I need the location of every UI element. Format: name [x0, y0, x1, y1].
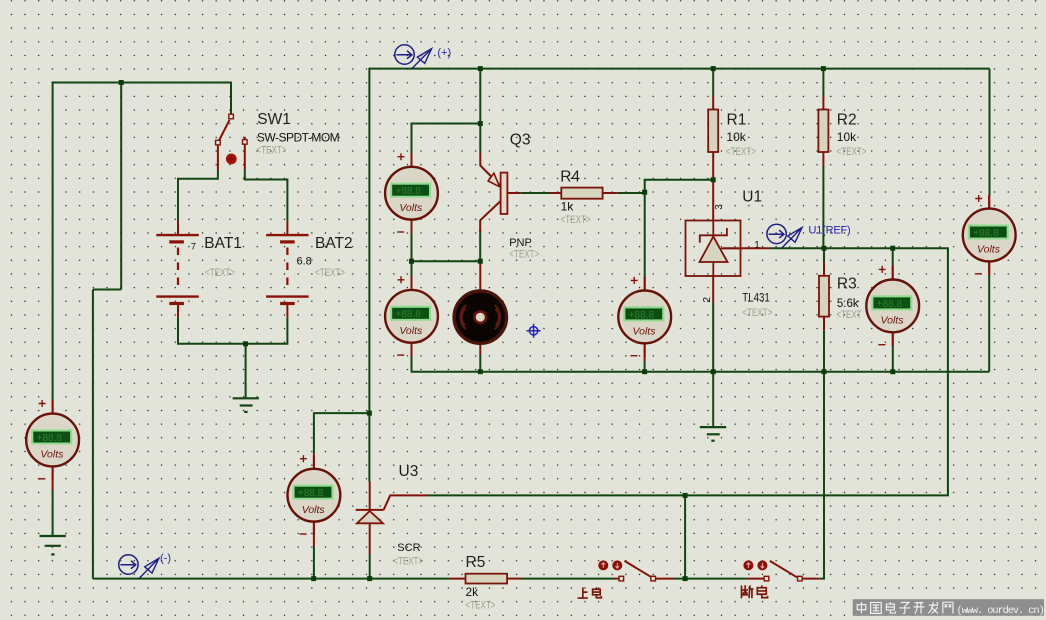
lead meter7 minus — [988, 261, 990, 275]
watermark bar — [853, 599, 1044, 616]
svg-text:BAT1: BAT1 — [204, 235, 242, 252]
watermark url text — [957, 605, 1044, 617]
lead meter4 plus — [313, 454, 315, 469]
wire top-left horizontal — [53, 82, 231, 84]
svg-text:PNP: PNP — [509, 237, 532, 249]
svg-text:(+): (+) — [437, 47, 451, 59]
placeholder R3 TEXT — [837, 309, 862, 321]
wire meter7 top — [989, 69, 991, 196]
lead meter2 plus — [411, 278, 413, 291]
junction meter4 branch — [367, 411, 372, 416]
resistor R5 — [466, 574, 508, 584]
watermark chinese text — [857, 602, 953, 614]
wire bottom rail R5 to SW-up — [522, 578, 615, 580]
svg-text:R1: R1 — [727, 111, 747, 128]
placeholder Q3 TEXT — [509, 248, 539, 260]
label K1 power-on chinese — [578, 587, 602, 598]
svg-text:1: 1 — [754, 240, 760, 251]
lead R3 bottom — [823, 317, 825, 331]
lead R1 top — [712, 96, 714, 110]
svg-text:<TEXT>: <TEXT> — [393, 556, 423, 568]
lead BAT2 bottom — [286, 304, 288, 318]
lead meter4 minus — [313, 522, 315, 547]
probe (+) — [395, 45, 432, 69]
label R2 — [837, 111, 857, 128]
lead meter3 plus — [52, 402, 54, 414]
value PNP — [509, 237, 532, 249]
junction bottom rail meter4 — [311, 576, 316, 581]
transistor U3 (SCR) — [356, 510, 384, 523]
lead meter2 minus — [411, 343, 413, 357]
svg-text:R4: R4 — [560, 169, 580, 186]
lead R5 left — [449, 578, 465, 580]
lead Q3 collector — [480, 201, 500, 232]
wire R1 top stub — [712, 68, 714, 96]
svg-text:SW1: SW1 — [257, 111, 291, 128]
junction rail-R3 — [822, 369, 827, 374]
voltmeter M7 — [963, 195, 1016, 275]
junction top rail at R1 — [711, 66, 716, 71]
wire meter6 top stub — [892, 248, 894, 265]
label U3 — [399, 463, 419, 480]
placeholder U3 TEXT — [393, 556, 423, 568]
resistor R4 — [561, 188, 602, 199]
lead U3 anode — [369, 482, 371, 510]
wire mid ground stem — [712, 372, 714, 426]
junction feedback drop — [683, 493, 688, 498]
wire middle rail y372 — [411, 371, 989, 373]
wire meter4 bottom to rail — [313, 547, 315, 579]
value TL431 — [742, 290, 770, 304]
wire main vertical x369 — [368, 68, 370, 482]
wire meter6 bottom stub — [892, 346, 894, 372]
junction meter1 bottom node — [409, 259, 414, 264]
placeholder R4 TEXT — [561, 214, 591, 226]
junction bottom rail SCR — [367, 576, 372, 581]
wire collector to junction — [479, 230, 481, 261]
svg-text:<TEXT>: <TEXT> — [257, 145, 287, 157]
wire meter2 plus stub — [411, 261, 413, 277]
junction rail-U1gnd — [711, 369, 716, 374]
battery BAT2 — [266, 235, 309, 303]
label R5 — [466, 554, 486, 571]
label R1 — [727, 111, 747, 128]
svg-text:U3: U3 — [399, 463, 419, 480]
pin number 2 — [702, 297, 713, 303]
pin number 1 — [754, 240, 760, 251]
resistor R3 — [819, 276, 829, 317]
battery BAT1 — [156, 235, 199, 303]
wire left vertical to voltmeter — [52, 82, 54, 403]
lead speaker bottom — [479, 344, 481, 355]
lead R2 bottom — [822, 152, 824, 166]
lead R5 right — [507, 578, 521, 580]
lead BAT2 top — [286, 221, 288, 235]
lead switch-up right — [655, 578, 674, 580]
junction REF at R2-R3 — [822, 246, 827, 251]
origin marker — [527, 324, 541, 338]
voltmeter M2 — [385, 276, 438, 356]
junction rail-meter6 — [890, 369, 895, 374]
switch SW1 — [216, 114, 248, 170]
svg-text:<TEXT>: <TEXT> — [315, 267, 345, 279]
svg-text:(-): (-) — [160, 553, 171, 565]
placeholder U1 TEXT — [742, 307, 772, 319]
wire SW1 throw1 down — [178, 170, 218, 221]
junction rail-meter5 — [642, 369, 647, 374]
lead R1 bottom to U1 pin3 — [712, 152, 714, 221]
lead speaker top — [479, 261, 481, 291]
svg-text:Q3: Q3 — [510, 132, 531, 149]
lead R4 right — [603, 192, 617, 194]
wire REF horizontal — [770, 248, 948, 495]
lead Q3 emitter — [480, 153, 500, 186]
svg-text:<TEXT: <TEXT — [837, 309, 862, 321]
wire meter2 bottom stub — [411, 357, 413, 372]
lead meter6 minus — [892, 332, 894, 346]
wire gate feedback horizontal — [428, 494, 949, 496]
placeholder R5 TEXT — [466, 600, 496, 612]
label K2 power-off chinese — [741, 585, 767, 598]
resistor R1 — [708, 110, 718, 153]
value R3 5.6k — [837, 298, 859, 310]
svg-text:SW-SPDT-MOM: SW-SPDT-MOM — [257, 131, 340, 145]
lead meter5 plus — [644, 278, 646, 292]
wire battery ground stem — [245, 344, 247, 398]
svg-text:U1: U1 — [742, 188, 762, 205]
wire bottom rail right corner up — [820, 331, 824, 579]
wire meter7 bottom — [988, 275, 990, 372]
wire far-left vertical x93 — [92, 290, 94, 579]
label R3 — [837, 275, 857, 292]
svg-text:<TEXT>: <TEXT> — [466, 600, 496, 612]
value BAT2 6.8 — [297, 256, 312, 268]
lead meter5 minus — [644, 343, 646, 361]
svg-text:2: 2 — [702, 297, 713, 303]
svg-text:TL431: TL431 — [742, 290, 770, 304]
svg-text:<TEXT>: <TEXT> — [726, 146, 756, 158]
junction top-left — [119, 80, 124, 85]
wire SW1 pole drop — [230, 82, 232, 115]
placeholder SW1 TEXT — [257, 145, 287, 157]
voltmeter M6 — [866, 266, 919, 346]
placeholder R2 TEXT — [837, 146, 867, 158]
wire meter4 branch — [314, 413, 370, 454]
svg-text:(www. ourdev. cn): (www. ourdev. cn) — [957, 605, 1044, 617]
wire R3 top stub — [823, 248, 825, 262]
svg-text:<TEXT>: <TEXT> — [742, 307, 772, 319]
svg-text:6.8: 6.8 — [297, 256, 312, 268]
value R5 2k — [466, 585, 480, 599]
junction collector-speaker — [478, 259, 483, 264]
wire meter5 bottom stub — [644, 361, 646, 372]
label Q3 — [510, 132, 531, 149]
probe label U1 REF — [809, 225, 851, 237]
label BAT2 — [315, 235, 353, 252]
lead BAT1 top — [177, 221, 179, 235]
lead meter1 plus — [411, 153, 413, 167]
probe U1(REF) — [767, 224, 802, 248]
wire U1 pin2 to rail — [712, 303, 714, 372]
value SW-SPDT-MOM — [257, 131, 340, 145]
svg-text:7: 7 — [191, 241, 196, 252]
wire junction up-over to R1 net — [645, 180, 714, 193]
lead switch-up left — [615, 578, 620, 580]
wire meter1 bottom to junction — [412, 234, 481, 261]
svg-text:R3: R3 — [837, 275, 857, 292]
wire meter1 top branch — [412, 124, 481, 154]
svg-text:U1(REF): U1(REF) — [809, 225, 851, 237]
ground left meter — [40, 536, 66, 554]
wire base to R4 — [520, 192, 549, 194]
lead Q3 base — [507, 192, 520, 194]
label U1 — [742, 188, 762, 205]
junction bottom rail feedback — [683, 576, 688, 581]
wire R2 bottom to REF — [822, 166, 824, 248]
placeholder BAT1 TEXT — [205, 267, 235, 279]
svg-text:<TEXT>: <TEXT> — [509, 248, 539, 260]
placeholder BAT2 TEXT — [315, 267, 345, 279]
junction top rail at R2 — [821, 66, 826, 71]
lead meter7 plus — [988, 196, 990, 209]
junction battery ground — [243, 341, 248, 346]
svg-text:R2: R2 — [837, 111, 857, 128]
value BAT1 7 — [191, 241, 196, 252]
value SCR — [397, 542, 420, 554]
label BAT1 — [204, 235, 242, 252]
lead BAT1 bottom — [177, 304, 179, 318]
junction REF at meter6 — [890, 246, 895, 251]
junction meter1 top — [478, 121, 483, 126]
lead meter3 minus — [52, 467, 54, 491]
wire bottom rail SW-up to SW-down — [674, 578, 747, 580]
voltmeter M1 — [385, 153, 438, 233]
resistor R2 — [818, 110, 828, 153]
junction top rail at emitter — [478, 66, 483, 71]
wire meter3 to ground — [52, 490, 54, 535]
lead R2 top — [822, 96, 824, 110]
svg-text:2k: 2k — [466, 585, 480, 599]
lead meter1 minus — [411, 220, 413, 235]
voltmeter M4 — [288, 455, 341, 535]
lead R3 top — [823, 262, 825, 276]
svg-text:1k: 1k — [561, 200, 575, 214]
wire R4 to junction — [617, 192, 645, 194]
lead R4 left — [549, 192, 561, 194]
wire junction down to meter5 — [644, 192, 646, 278]
wire R2 top stub — [822, 68, 824, 96]
lead U3 gate — [384, 495, 428, 510]
svg-text:<TEXT>: <TEXT> — [205, 267, 235, 279]
pin number 3 — [714, 204, 725, 210]
value R4 1k — [561, 200, 575, 214]
svg-text:R5: R5 — [466, 554, 486, 571]
lead U1 pin1 REF — [723, 247, 770, 249]
label R4 — [560, 169, 580, 186]
value R1 10k — [726, 130, 746, 144]
lead U1 pin2 — [712, 276, 714, 303]
wire SW1 throw2 down — [245, 169, 288, 220]
wire BAT1 bottom — [178, 318, 287, 344]
probe label minus — [160, 553, 171, 565]
wire jog vertical x121 — [120, 83, 122, 290]
svg-text:<TEXT>: <TEXT> — [561, 214, 591, 226]
placeholder R1 TEXT — [726, 146, 756, 158]
wire feedback drop to bottom rail — [684, 495, 686, 578]
wire SCR cathode to rail — [369, 554, 371, 579]
svg-text:BAT2: BAT2 — [315, 235, 353, 252]
switch K1 power-on — [598, 560, 655, 580]
value R2 10k — [837, 130, 857, 144]
voltmeter M5 — [618, 277, 671, 357]
junction rail-speaker — [478, 369, 483, 374]
lead SW1 pole — [230, 114, 232, 116]
svg-text:10k: 10k — [726, 130, 746, 144]
transistor Q3 — [488, 173, 507, 214]
probe (-) — [119, 555, 159, 579]
wire top rail — [369, 68, 989, 70]
label SW1 — [257, 111, 291, 128]
probe label plus — [437, 47, 451, 59]
speaker LS — [454, 291, 506, 343]
svg-text:3: 3 — [714, 204, 725, 210]
ground mid rail — [700, 427, 726, 441]
junction R1-U1 node — [711, 177, 716, 182]
wire speaker bottom stub — [479, 355, 481, 372]
voltmeter M3 — [26, 400, 79, 480]
lead meter6 plus — [892, 266, 894, 281]
wire jog horizontal — [93, 289, 121, 291]
junction R4 node — [642, 190, 647, 195]
wire bottom rail left — [93, 578, 450, 580]
op-amp U1 (TL431 shunt regulator) — [686, 221, 741, 277]
lead U3 cathode — [369, 523, 371, 554]
svg-text:SCR: SCR — [397, 542, 420, 554]
wire emitter branch vertical — [479, 69, 481, 153]
lead switch-down right — [802, 578, 820, 580]
ground battery mid — [233, 398, 259, 412]
svg-text:10k: 10k — [837, 130, 857, 144]
switch K2 power-off — [743, 560, 802, 580]
svg-text:<TEXT>: <TEXT> — [837, 146, 867, 158]
lead switch-down left — [747, 578, 764, 580]
